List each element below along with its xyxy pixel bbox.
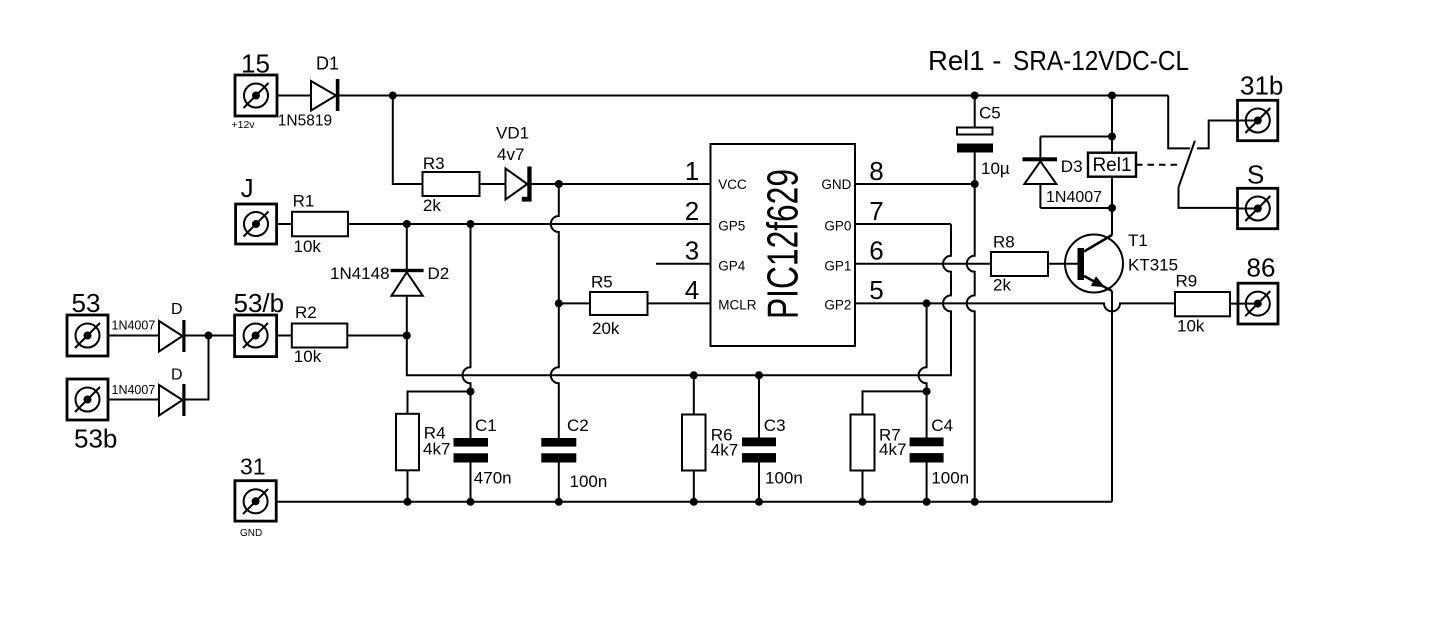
wire R6 top xyxy=(693,375,695,414)
resistor R8 xyxy=(991,252,1048,276)
svg-text:100n: 100n xyxy=(570,472,608,491)
wire top supply rail xyxy=(339,95,1168,97)
svg-text:Rel1 -: Rel1 - xyxy=(928,45,1001,76)
svg-text:C3: C3 xyxy=(764,416,786,435)
svg-text:GP0: GP0 xyxy=(824,219,851,234)
wire R8 to base xyxy=(1048,263,1078,265)
resistor R2 xyxy=(292,324,348,348)
wire R4 branch xyxy=(408,392,471,414)
terminal 53 xyxy=(67,315,108,356)
resistor R4 xyxy=(396,414,419,471)
svg-text:T1: T1 xyxy=(1128,231,1148,250)
svg-text:1N4148: 1N4148 xyxy=(330,264,390,283)
node GP5/D2 junction xyxy=(403,220,411,228)
wire C1 to ground xyxy=(470,463,472,502)
wire relay actuator dashed xyxy=(1136,164,1181,166)
svg-text:2: 2 xyxy=(685,196,699,226)
svg-text:R3: R3 xyxy=(423,154,445,173)
svg-text:J: J xyxy=(241,173,254,203)
wire R4 to ground xyxy=(407,470,409,502)
wire GP5 down to D2 xyxy=(406,224,408,269)
svg-text:86: 86 xyxy=(1247,253,1276,283)
wire D3 top to relay line xyxy=(1040,136,1112,138)
wire to R5 xyxy=(559,302,590,304)
node collector/D3 junction xyxy=(1108,204,1116,212)
svg-text:D: D xyxy=(171,367,183,384)
svg-text:3: 3 xyxy=(685,236,699,266)
diode D lower xyxy=(159,384,186,416)
svg-text:4: 4 xyxy=(685,275,699,305)
svg-text:470n: 470n xyxy=(474,469,512,488)
capacitor C2 xyxy=(541,438,576,463)
svg-text:15: 15 xyxy=(241,49,270,79)
wire D to 53/b xyxy=(186,335,235,337)
svg-text:1N5819: 1N5819 xyxy=(278,113,332,130)
terminal 31b xyxy=(1238,100,1278,140)
wire R9 to 86 xyxy=(1230,303,1253,305)
vertical GP5/C1 line with hop xyxy=(463,224,471,438)
ground rail junction dots xyxy=(404,498,979,506)
wire GP4 stub pin3 xyxy=(656,263,711,265)
wire J to R1 xyxy=(277,223,292,225)
svg-text:D2: D2 xyxy=(428,264,450,283)
wire 53 to diode D xyxy=(108,335,159,337)
svg-text:6: 6 xyxy=(869,236,883,266)
svg-text:PIC12f629: PIC12f629 xyxy=(759,169,808,319)
node GP2 branch xyxy=(923,299,931,307)
wire R2 to node xyxy=(347,335,407,337)
svg-text:+12v: +12v xyxy=(232,119,256,131)
svg-text:4v7: 4v7 xyxy=(497,145,524,164)
svg-text:R5: R5 xyxy=(591,273,613,292)
wire switch contact to 31b xyxy=(1197,121,1238,149)
svg-text:R2: R2 xyxy=(295,303,317,322)
svg-text:4k7: 4k7 xyxy=(879,440,906,459)
wire R5 to MCLR pin4 xyxy=(648,302,711,304)
diode D1 xyxy=(311,79,339,111)
svg-text:10µ: 10µ xyxy=(981,159,1010,178)
terminal 53/b xyxy=(235,315,277,357)
wire 15 to D1 xyxy=(277,95,311,97)
diode D2 xyxy=(391,269,424,296)
svg-text:20k: 20k xyxy=(592,319,620,338)
wire pin7 GP0 stub xyxy=(855,223,951,225)
node diode join xyxy=(205,332,213,340)
wire C4 to ground xyxy=(926,463,928,502)
svg-text:GP1: GP1 xyxy=(824,258,851,273)
node GP5/C1 junction xyxy=(467,220,475,228)
svg-text:D: D xyxy=(171,301,183,318)
wire 53b to diode D xyxy=(108,399,159,401)
resistor R9 xyxy=(1175,292,1230,316)
wire VD1 to pin1 VCC xyxy=(532,183,711,185)
wire rail to switch common xyxy=(1168,96,1190,149)
capacitor C1 xyxy=(454,438,489,463)
svg-text:VD1: VD1 xyxy=(496,124,529,143)
node R2/D2 junction xyxy=(403,332,411,340)
wire C2 to ground xyxy=(558,463,560,502)
terminal S xyxy=(1238,188,1278,228)
svg-text:53b: 53b xyxy=(74,424,117,454)
svg-text:Rel1: Rel1 xyxy=(1092,155,1131,176)
svg-text:100n: 100n xyxy=(765,469,803,488)
svg-text:R1: R1 xyxy=(293,192,315,211)
switch arm xyxy=(1179,141,1195,188)
node D3 top junction xyxy=(1108,133,1116,141)
resistor R1 xyxy=(292,212,348,237)
wire into 86 xyxy=(1238,303,1258,305)
resistor R3 xyxy=(423,172,480,196)
svg-text:D3: D3 xyxy=(1061,157,1083,176)
wire switch pivot to S xyxy=(1179,187,1239,208)
relay coil Rel1 xyxy=(1088,153,1136,177)
wire relay to collector node xyxy=(1111,177,1113,235)
wire D3 bottom to relay line xyxy=(1040,207,1112,209)
capacitor C3 xyxy=(742,438,776,463)
node bus/C3 junction xyxy=(755,371,763,379)
node rail/C5 junction xyxy=(971,92,979,100)
vertical GP2/C4 line with hop xyxy=(919,303,927,437)
diode D upper xyxy=(159,320,186,352)
svg-text:100n: 100n xyxy=(931,469,969,488)
svg-text:1: 1 xyxy=(685,156,699,186)
svg-text:2k: 2k xyxy=(993,276,1011,295)
node C1/R4 branch xyxy=(467,388,475,396)
terminal 31 xyxy=(235,481,276,521)
terminal J xyxy=(236,204,277,244)
node GND/C5 junction xyxy=(971,180,979,188)
capacitor C4 xyxy=(910,438,944,463)
terminal 15 xyxy=(235,75,277,116)
wire C3 to ground xyxy=(758,463,760,502)
wire ground rail xyxy=(276,501,1112,503)
wire into 31b xyxy=(1238,120,1258,122)
wire emitter to ground rail xyxy=(1111,291,1113,502)
wire R6 to ground xyxy=(693,471,695,502)
IC U1 PIC12f629 xyxy=(711,144,856,346)
svg-text:C5: C5 xyxy=(979,104,1001,123)
node VCC junction xyxy=(555,180,563,188)
node junction on rail xyxy=(389,92,397,100)
svg-text:C2: C2 xyxy=(567,416,589,435)
svg-text:10k: 10k xyxy=(294,347,322,366)
svg-text:4k7: 4k7 xyxy=(423,440,450,459)
wire VCC vertical to R5 and C2 with hops xyxy=(551,184,559,438)
svg-text:10k: 10k xyxy=(294,237,322,256)
svg-text:8: 8 xyxy=(869,156,883,186)
wire R3 to VD1 xyxy=(480,183,506,185)
svg-text:GP5: GP5 xyxy=(718,219,745,234)
svg-text:53/b: 53/b xyxy=(234,288,285,318)
svg-text:1N4007: 1N4007 xyxy=(112,319,156,333)
node bus/R6 junction xyxy=(690,371,698,379)
svg-text:C4: C4 xyxy=(931,416,953,435)
svg-text:GP4: GP4 xyxy=(718,258,746,273)
svg-text:53: 53 xyxy=(72,288,101,318)
wire C5 top lead xyxy=(974,96,976,128)
svg-text:31: 31 xyxy=(240,454,266,480)
resistor R6 xyxy=(682,415,706,471)
wire R7 branch xyxy=(863,391,927,414)
svg-text:VCC: VCC xyxy=(718,177,747,192)
capacitor C5 xyxy=(957,128,993,153)
svg-text:4k7: 4k7 xyxy=(711,441,738,460)
resistor R5 xyxy=(590,292,648,315)
svg-text:SRA-12VDC-CL: SRA-12VDC-CL xyxy=(1013,45,1189,76)
svg-text:1N4007: 1N4007 xyxy=(112,383,156,397)
wire rail down to R3 xyxy=(393,96,423,185)
wire D2 to R2 node xyxy=(406,296,408,336)
svg-text:R9: R9 xyxy=(1176,272,1198,291)
svg-text:GND: GND xyxy=(821,177,851,192)
transistor T1 xyxy=(1065,235,1123,293)
svg-text:S: S xyxy=(1247,160,1264,190)
svg-text:C1: C1 xyxy=(475,416,497,435)
node C4/R7 branch xyxy=(923,387,931,395)
svg-text:2k: 2k xyxy=(423,196,441,215)
wire pin5 GP2 row with dip hop xyxy=(855,303,1175,311)
wire C5 down with hops to ground xyxy=(967,153,975,502)
svg-text:1N4007: 1N4007 xyxy=(1046,189,1102,206)
wire 53/b to R2 xyxy=(277,335,292,337)
resistor R7 xyxy=(851,415,875,471)
wire GP5 row xyxy=(292,223,711,225)
node rail/relay junction xyxy=(1108,92,1116,100)
zener diode VD1 xyxy=(506,167,532,202)
wire pin6 GP1 to R8 xyxy=(855,263,991,265)
wire D up to node xyxy=(186,336,209,400)
wire pin8 GND to C5 line xyxy=(855,183,975,185)
wire GP0 bus: down, right, up to pin7 with hops xyxy=(407,224,951,375)
svg-text:R8: R8 xyxy=(993,233,1015,252)
wire into S xyxy=(1238,208,1258,210)
svg-text:5: 5 xyxy=(869,275,883,305)
svg-text:10k: 10k xyxy=(1177,317,1205,336)
svg-text:D1: D1 xyxy=(316,54,339,74)
terminal 53b xyxy=(67,379,108,420)
wire relay branch from rail xyxy=(1111,96,1113,153)
node R5 branch xyxy=(555,299,563,307)
wire R7 to ground xyxy=(862,471,864,502)
svg-text:GP2: GP2 xyxy=(824,298,851,313)
svg-text:31b: 31b xyxy=(1240,71,1283,101)
svg-text:MCLR: MCLR xyxy=(718,298,757,313)
svg-text:KT315: KT315 xyxy=(1128,256,1178,275)
diode D3 xyxy=(1023,137,1058,209)
svg-text:7: 7 xyxy=(869,196,883,226)
wire C3 top xyxy=(758,375,760,437)
terminal 86 xyxy=(1238,283,1278,324)
svg-text:GND: GND xyxy=(240,528,262,539)
